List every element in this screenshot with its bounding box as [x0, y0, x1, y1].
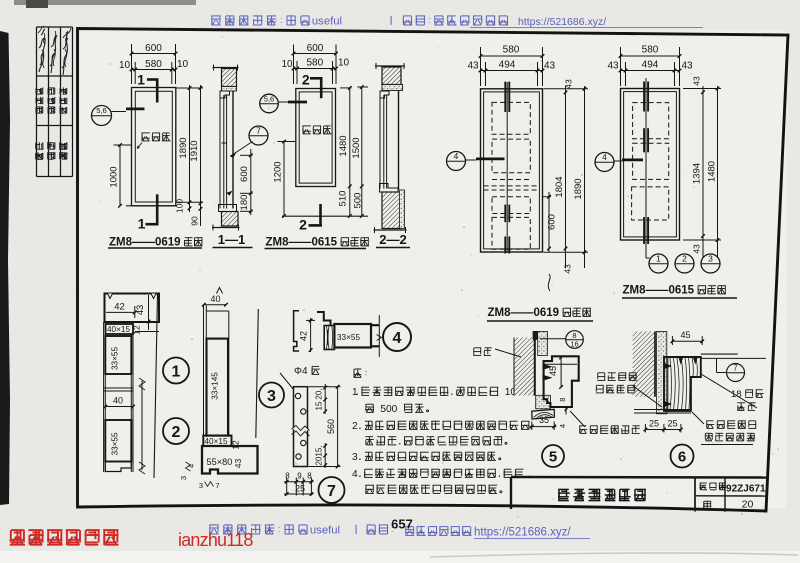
section 2-2 bottom cap	[374, 229, 407, 231]
svg-text:55×80: 55×80	[207, 457, 233, 467]
elev4 top dim 580	[621, 55, 680, 57]
hinges elev4	[643, 82, 645, 112]
bottom wall face lines	[634, 409, 691, 411]
svg-text:15: 15	[315, 401, 324, 410]
svg-text:10: 10	[119, 60, 131, 71]
signature table sidebar (rotated title block)	[36, 27, 38, 177]
detail 6 wood door piece	[664, 357, 701, 411]
svg-text:33×145: 33×145	[210, 372, 219, 400]
wood grain arcs	[670, 358, 697, 411]
title text guan dao jing jian xiu men	[558, 489, 646, 501]
svg-text:1200: 1200	[273, 161, 284, 182]
phi 4 hole label	[294, 366, 320, 377]
door leaf rect 0615	[621, 89, 680, 241]
svg-text:7: 7	[733, 364, 738, 373]
svg-text:657: 657	[391, 517, 413, 532]
svg-text:600: 600	[145, 43, 162, 54]
floor line	[126, 205, 177, 207]
she-ding label (shot nail)	[473, 348, 491, 356]
elev3 dim 1890	[584, 86, 586, 268]
wall line right of detail A	[154, 294, 158, 479]
svg-text:ZM8——0615: ZM8——0615	[266, 237, 338, 249]
detail 4 33x55 box	[334, 324, 371, 348]
label ZM8-0615 door elevation	[266, 237, 369, 249]
detail bubble 4 elev3	[447, 152, 466, 171]
concrete band	[222, 87, 237, 92]
section 1-1 dims 600/180	[250, 149, 252, 215]
svg-text:600: 600	[239, 166, 250, 182]
wood sill with grain	[532, 409, 555, 419]
label ZM8-0619 door elevation	[488, 307, 591, 319]
svg-text:6: 6	[678, 449, 686, 466]
svg-text:43: 43	[233, 459, 243, 469]
svg-text:500: 500	[353, 193, 364, 209]
frame head piece 2-2	[380, 91, 389, 98]
mu-men surface paint label	[570, 411, 585, 427]
18 long wood screw label	[731, 389, 764, 400]
dim 1000 left	[119, 145, 121, 206]
svg-text:useful: useful	[310, 525, 340, 537]
detail 7 dims 8 9 8	[284, 481, 314, 483]
page label	[703, 501, 711, 509]
red promo text	[10, 530, 119, 545]
big circle 7	[319, 477, 345, 503]
blue watermark top	[211, 16, 342, 28]
bubbles 1 2 3 under elev4	[645, 240, 647, 258]
40x15 box B	[203, 436, 231, 447]
label ge-men-suo (door lock)	[142, 133, 171, 141]
gray scan streak top edge	[14, 0, 196, 5]
svg-text:10: 10	[338, 58, 350, 69]
svg-text:2: 2	[299, 217, 307, 233]
nails detail 6	[679, 357, 684, 364]
svg-text:43: 43	[692, 244, 702, 254]
detail 5 steel angle black	[533, 331, 540, 340]
svg-text:5: 5	[549, 449, 557, 466]
detail 4 wood grain piece	[324, 326, 334, 350]
svg-text:100: 100	[175, 199, 185, 213]
svg-text:40×15: 40×15	[205, 437, 228, 446]
svg-text:90: 90	[190, 216, 200, 226]
svg-text:43: 43	[563, 264, 573, 274]
title block	[511, 476, 767, 479]
detail 5 wall hatch	[514, 338, 535, 396]
svg-text:15,: 15,	[315, 445, 324, 456]
floor line elev2	[282, 215, 368, 217]
elev4 dim 1480	[717, 86, 719, 258]
svg-text:494: 494	[642, 60, 659, 71]
label ZM8-0615 door elevation (right)	[623, 285, 726, 297]
33x145 box	[207, 339, 229, 436]
detail 4 wall line	[378, 315, 380, 357]
big circle 4	[383, 323, 411, 351]
svg-text:510: 510	[338, 191, 349, 207]
dim 45 detail6	[672, 340, 702, 342]
detail 4 left bracket	[294, 311, 299, 351]
wall face line right	[701, 353, 738, 355]
svg-text:1: 1	[656, 254, 661, 264]
detail B rails	[203, 306, 205, 438]
blue watermark bottom	[209, 525, 340, 537]
section 2-2 bottom hatch tall	[382, 192, 402, 229]
svg-text:25: 25	[649, 419, 659, 429]
plate with holes	[294, 387, 308, 467]
light strip at bottom page edge	[0, 551, 800, 563]
svg-text:580: 580	[642, 45, 659, 56]
right dims 1480/510	[349, 88, 351, 216]
svg-text:4: 4	[454, 151, 459, 161]
section 1-1 top cap	[213, 67, 239, 69]
dim 43 inside lintel	[148, 295, 150, 330]
svg-text:33×55: 33×55	[111, 432, 120, 455]
detail 5 concrete speckle bottom	[536, 395, 551, 409]
svg-text:25: 25	[295, 484, 305, 494]
svg-text:43: 43	[692, 76, 702, 86]
section 1-1 bottom hatch	[222, 212, 239, 227]
svg-text:40: 40	[113, 396, 123, 406]
svg-text:1394: 1394	[692, 163, 703, 184]
door frame outer rectangle	[132, 88, 176, 206]
door leaf rect 0619	[481, 89, 543, 252]
svg-text:9: 9	[297, 472, 302, 481]
labels rotated: proof / design / draft	[36, 142, 44, 160]
svg-text:10: 10	[177, 59, 189, 70]
svg-text:500: 500	[380, 404, 397, 415]
elev4 dim 1394	[702, 86, 704, 258]
svg-text:1480: 1480	[338, 135, 349, 156]
svg-text:4: 4	[187, 464, 196, 468]
label ge-men-suo	[302, 126, 331, 134]
40x15 trim box A	[106, 324, 134, 334]
svg-text:33×55: 33×55	[111, 347, 120, 370]
svg-text:45: 45	[680, 330, 690, 340]
break squiggle below elev3	[548, 274, 550, 291]
svg-text:8: 8	[558, 398, 567, 402]
detail 5 concrete speckle top	[538, 332, 548, 356]
mesh cloth label	[597, 373, 636, 381]
svg-text:4: 4	[393, 330, 402, 347]
svg-text:18: 18	[731, 389, 742, 400]
bottom step 2-2	[380, 184, 399, 193]
elev3 dim 43 494 43	[481, 70, 543, 72]
svg-text:600: 600	[547, 214, 558, 230]
svg-text:560: 560	[326, 419, 336, 434]
svg-text:8: 8	[307, 472, 312, 481]
svg-text:3: 3	[199, 481, 203, 490]
svg-text:1—1: 1—1	[218, 232, 245, 247]
svg-text:42: 42	[114, 302, 125, 313]
plate dims 15/20 bottom	[324, 443, 326, 468]
svg-text:1890: 1890	[573, 178, 584, 199]
detail B dim 40	[204, 304, 226, 306]
svg-text:25: 25	[667, 419, 677, 429]
svg-text:16: 16	[570, 340, 578, 349]
svg-text:42: 42	[299, 331, 309, 341]
frame rails detail A	[103, 322, 105, 472]
detail bubble 4 elev4	[595, 153, 614, 172]
big circle 5	[542, 445, 564, 467]
label ZM8-0619 elevation	[109, 237, 203, 249]
svg-text:1500: 1500	[351, 137, 362, 158]
detail A lintel box	[105, 294, 160, 323]
detail 5 frame profile	[544, 356, 579, 407]
svg-text:580: 580	[503, 45, 520, 56]
svg-text:3: 3	[179, 476, 188, 480]
svg-text:92ZJ671: 92ZJ671	[726, 484, 766, 495]
dim 10 580 10	[132, 69, 176, 71]
svg-text:40: 40	[210, 294, 220, 304]
nails in frame	[543, 364, 552, 369]
door leaf edge line with breaks	[141, 381, 143, 470]
svg-text:2: 2	[302, 72, 310, 88]
detail 4 stop trim steps	[317, 311, 331, 326]
dim 42 inside lintel	[106, 311, 135, 313]
bubble 7	[249, 126, 268, 145]
center line elev4	[645, 78, 647, 240]
svg-text:180: 180	[239, 195, 250, 211]
svg-text:ZM8——0615: ZM8——0615	[623, 285, 695, 297]
svg-text:7: 7	[215, 481, 219, 490]
svg-text:43: 43	[607, 61, 619, 72]
elev3 dim 1804	[565, 86, 567, 268]
bubble 7 right	[727, 364, 745, 382]
elev3 top dim 580	[481, 55, 543, 57]
svg-text:2: 2	[172, 424, 181, 441]
svg-text:Φ4: Φ4	[294, 366, 308, 377]
atlas number label	[700, 483, 726, 490]
55x80 box	[202, 446, 258, 474]
section marker 2 bottom	[319, 204, 322, 227]
33x55 box 2	[105, 420, 131, 462]
detail 4 dim 42	[310, 318, 312, 352]
section 1-1 lintel hatch	[222, 69, 237, 87]
svg-text:1804: 1804	[554, 176, 565, 197]
frame head piece	[220, 91, 230, 98]
bottom sill piece	[219, 205, 237, 212]
svg-text:1890: 1890	[178, 137, 189, 158]
big circle 2	[163, 418, 189, 444]
svg-text:8: 8	[285, 472, 290, 481]
svg-text:4: 4	[602, 152, 607, 162]
svg-text:useful: useful	[312, 16, 342, 28]
detail 6 wall hatch	[633, 331, 655, 396]
elev3 right dims 600	[548, 192, 550, 253]
svg-text:7: 7	[256, 126, 261, 136]
wall line right of detail B	[256, 309, 258, 438]
svg-text:43: 43	[135, 305, 146, 316]
notes text block	[354, 369, 366, 378]
svg-text:7: 7	[327, 483, 336, 500]
svg-text:1: 1	[172, 364, 181, 381]
door leaf section lines	[219, 98, 221, 209]
dims 25 25	[645, 429, 681, 431]
dashed panels elev4	[633, 103, 669, 139]
svg-text:494: 494	[499, 60, 516, 71]
svg-text:1480: 1480	[707, 161, 718, 182]
svg-text:43: 43	[544, 61, 556, 72]
svg-text:20: 20	[315, 456, 324, 465]
svg-text:33×55: 33×55	[337, 333, 360, 342]
svg-text:20: 20	[742, 499, 754, 511]
svg-text:3: 3	[267, 388, 276, 405]
svg-text:40×15: 40×15	[107, 325, 130, 334]
svg-text:https://521686.xyz/: https://521686.xyz/	[474, 527, 571, 539]
svg-text:3: 3	[708, 254, 713, 264]
wallpaper label	[706, 421, 756, 429]
door frame rect 0615	[296, 89, 336, 187]
section 2-2 top cap	[375, 65, 405, 67]
leader from bubble 7 to leaf	[231, 142, 253, 157]
black book-spine strip at left edge	[0, 31, 10, 505]
svg-text:35: 35	[539, 415, 549, 425]
section marker 1 bottom	[156, 194, 159, 225]
detail bubble 5,6	[92, 106, 112, 126]
break notches on lintel top	[108, 294, 113, 299]
svg-text:1910: 1910	[189, 140, 200, 161]
names rotated: zhang sheng guo / zhang guo wei / yang song lin	[36, 87, 43, 113]
dashed panels elev3	[492, 102, 530, 134]
elev4 dim 43 494 43	[621, 70, 680, 72]
svg-text:3: 3	[352, 452, 358, 463]
svg-text:ianzhu118: ianzhu118	[178, 530, 253, 550]
svg-text:2—2: 2—2	[379, 232, 406, 247]
dim 45 detail5	[560, 357, 562, 388]
svg-text:4: 4	[558, 424, 567, 428]
bubble 8/16	[566, 331, 584, 349]
svg-text:20,: 20,	[315, 388, 324, 399]
drawing sheet frame (slightly warped scan)	[78, 29, 789, 512]
big circle 1	[163, 358, 189, 384]
detail 7 dim 25	[284, 493, 314, 495]
svg-text:https://521686.xyz/: https://521686.xyz/	[518, 16, 606, 28]
bottom piece detail A	[105, 462, 131, 472]
svg-text:2: 2	[352, 421, 358, 432]
concrete band 2-2	[382, 85, 403, 91]
member break between boxes	[104, 387, 133, 389]
dim 560	[337, 387, 339, 467]
wall face line under lintel	[135, 321, 159, 323]
right dim chain 1890/100	[189, 85, 191, 212]
dim 40 between boxes	[105, 406, 133, 408]
svg-text:5,6: 5,6	[96, 106, 106, 115]
svg-text:43: 43	[467, 61, 479, 72]
dim 1200 left	[283, 142, 285, 217]
svg-text:45: 45	[548, 366, 558, 376]
svg-text:10: 10	[281, 59, 293, 70]
33x55 box 1	[105, 336, 131, 374]
dim 35	[530, 426, 557, 428]
svg-text:580: 580	[306, 58, 323, 69]
hinges elev3	[504, 82, 506, 112]
svg-text:600: 600	[307, 43, 324, 54]
detail 6 concrete speckle	[657, 331, 667, 413]
handwritten signatures	[39, 29, 45, 72]
svg-text:5,6: 5,6	[264, 95, 274, 104]
leader to plate	[280, 373, 294, 390]
section 2-2 top hatch	[382, 67, 401, 85]
detail bubble 5,6 (elev2)	[260, 94, 279, 113]
door leaf lines 2-2	[379, 98, 381, 189]
big circle 6	[671, 445, 694, 468]
plate break	[292, 426, 310, 431]
svg-text:43: 43	[681, 61, 693, 72]
svg-text:580: 580	[145, 59, 162, 70]
elevation ZM8-0619 frame: top dim 600	[132, 53, 176, 55]
detail B top break arrow	[217, 288, 223, 294]
right dims 1500/500	[361, 87, 363, 216]
big circle 3	[259, 383, 284, 408]
plate dims 20/15 top	[324, 384, 326, 414]
right dim chain 1910/90	[200, 85, 202, 226]
svg-text:1: 1	[137, 72, 145, 88]
svg-text:1000: 1000	[109, 166, 120, 187]
elevation ZM8-0615: top dim 600	[294, 53, 337, 55]
section 1-1 bottom cap	[212, 227, 240, 229]
svg-text:4: 4	[352, 469, 358, 480]
dim 10 580 10	[294, 68, 337, 70]
detail 4 right bars	[371, 324, 379, 326]
svg-text:ZM8——0619: ZM8——0619	[488, 307, 560, 319]
center line elev3	[506, 82, 508, 252]
svg-text:2: 2	[682, 254, 687, 264]
svg-text:ZM8——0619: ZM8——0619	[109, 237, 181, 249]
svg-text:1: 1	[138, 216, 146, 232]
svg-text:1: 1	[352, 387, 358, 398]
svg-text:43: 43	[564, 79, 574, 89]
